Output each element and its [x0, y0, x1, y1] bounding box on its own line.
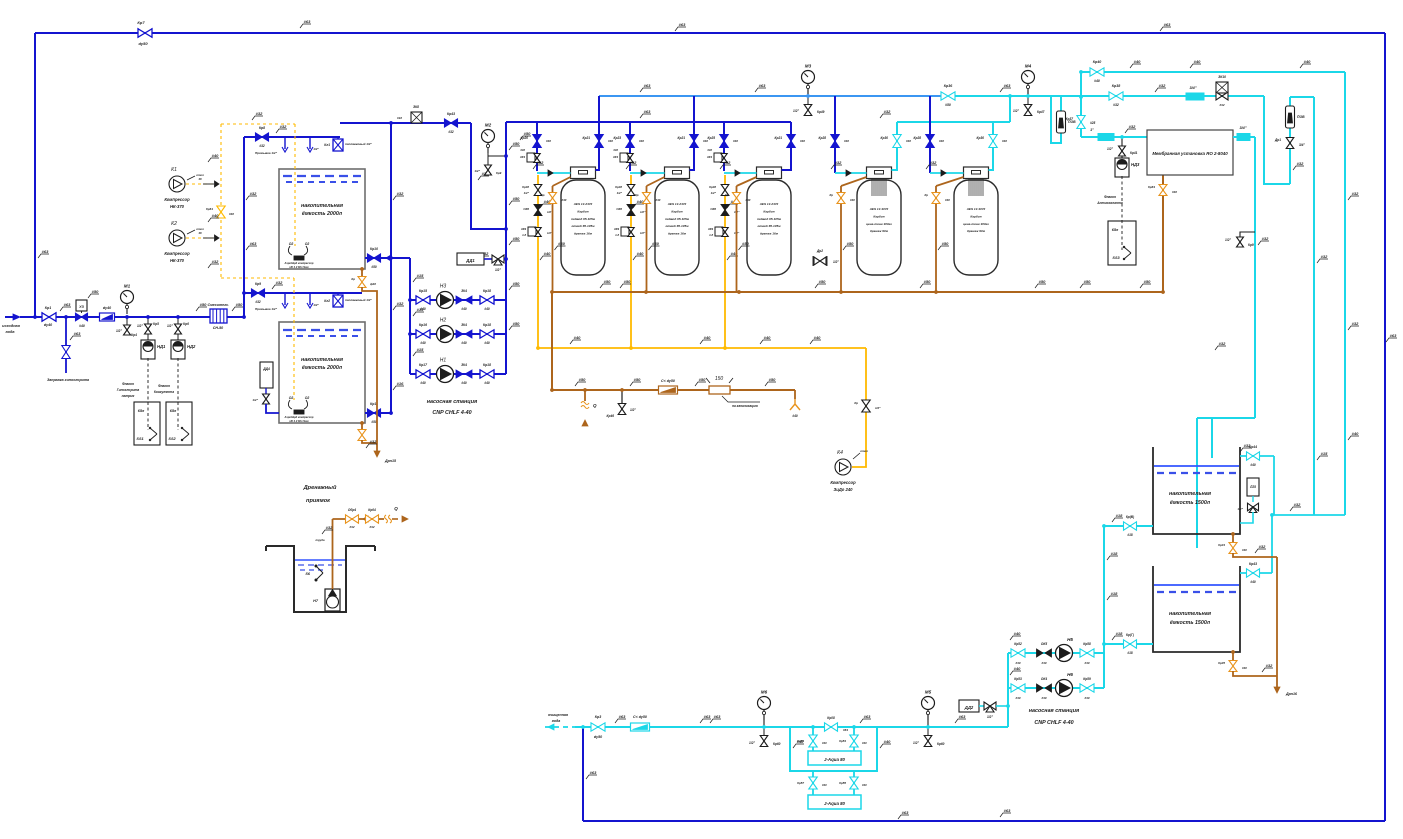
- svg-text:откл: откл: [860, 449, 868, 453]
- svg-text:Кр28: Кр28: [914, 136, 922, 140]
- svg-text:Коагулянта: Коагулянта: [154, 390, 174, 394]
- svg-text:Промывка 1/2": Промывка 1/2": [255, 151, 278, 155]
- svg-text:#32: #32: [397, 301, 404, 306]
- svg-text:1/2": 1/2": [987, 715, 993, 719]
- svg-text:ОК6: ОК6: [616, 207, 622, 211]
- svg-text:#50: #50: [558, 241, 565, 246]
- svg-text:Кр(В): Кр(В): [1126, 515, 1134, 519]
- svg-text:#32: #32: [369, 525, 374, 529]
- svg-text:Кр3: Кр3: [595, 715, 601, 719]
- svg-text:Кр25: Кр25: [708, 136, 716, 140]
- svg-text:#40: #40: [546, 139, 551, 143]
- svg-text:Кр63: Кр63: [1148, 185, 1155, 189]
- svg-text:Кр30: Кр30: [881, 136, 889, 140]
- svg-text:М6: М6: [761, 690, 768, 695]
- svg-text:Кр30: Кр30: [977, 136, 985, 140]
- svg-text:О2: О2: [289, 242, 294, 246]
- svg-text:#18: #18: [1127, 533, 1133, 537]
- svg-text:#63: #63: [644, 83, 651, 88]
- svg-text:М5: М5: [925, 690, 932, 695]
- svg-text:3/4": 3/4": [1239, 126, 1246, 130]
- svg-text:ДД4: ДД4: [262, 367, 270, 371]
- svg-text:dy50: dy50: [138, 41, 148, 46]
- svg-text:дренаж 16м: дренаж 16м: [760, 232, 779, 236]
- svg-text:#40: #40: [461, 307, 467, 311]
- svg-text:#50: #50: [513, 236, 520, 241]
- svg-text:#50: #50: [513, 321, 520, 326]
- svg-text:#15: #15: [417, 273, 424, 278]
- svg-text:SS1: SS1: [136, 437, 143, 441]
- svg-text:#40: #40: [574, 335, 581, 340]
- svg-text:накопительная: накопительная: [301, 203, 344, 209]
- svg-text:#32: #32: [1262, 236, 1269, 241]
- svg-text:#50: #50: [1144, 279, 1151, 284]
- svg-text:#32: #32: [930, 160, 937, 165]
- svg-text:Карбон: Карбон: [763, 209, 774, 213]
- svg-text:1/2": 1/2": [875, 406, 881, 410]
- svg-text:1/2": 1/2": [167, 324, 173, 328]
- svg-text:#40: #40: [797, 739, 804, 744]
- svg-text:Кр21: Кр21: [775, 136, 783, 140]
- svg-text:#63: #63: [679, 22, 686, 27]
- svg-text:#50: #50: [524, 131, 531, 136]
- svg-text:УЗ: УЗ: [79, 305, 84, 309]
- svg-text:#32: #32: [835, 160, 842, 165]
- svg-text:ОК6: ОК6: [710, 207, 716, 211]
- svg-text:AES 13-2472: AES 13-2472: [573, 202, 593, 206]
- svg-text:Кр23: Кр23: [614, 136, 622, 140]
- svg-text:цена-тонн 300кг: цена-тонн 300кг: [963, 222, 989, 226]
- svg-text:Кр43: Кр43: [1249, 562, 1257, 566]
- svg-text:очищенная: очищенная: [548, 713, 569, 717]
- svg-text:#50: #50: [236, 302, 243, 307]
- svg-text:Смеситель: Смеситель: [207, 303, 228, 307]
- svg-text:1": 1": [1090, 128, 1094, 132]
- svg-text:Кр4: Кр4: [131, 333, 137, 337]
- svg-text:1/2": 1/2": [252, 398, 258, 402]
- svg-text:Кр1: Кр1: [45, 306, 51, 310]
- svg-text:подвод 65-105м: подвод 65-105м: [571, 217, 596, 221]
- svg-text:#50: #50: [1039, 279, 1046, 284]
- svg-text:#63: #63: [74, 331, 81, 336]
- svg-text:1/2": 1/2": [474, 169, 480, 173]
- svg-text:вода: вода: [552, 719, 561, 723]
- svg-text:dy50: dy50: [594, 735, 602, 739]
- svg-text:J-Aqua 80: J-Aqua 80: [824, 801, 846, 806]
- svg-text:#40: #40: [420, 381, 426, 385]
- svg-text:Кр: Кр: [541, 193, 545, 197]
- svg-text:М3: М3: [805, 64, 812, 69]
- svg-text:Кр9: Кр9: [255, 282, 261, 286]
- svg-text:Кр46: Кр46: [607, 414, 615, 418]
- svg-text:Карбон: Карбон: [873, 214, 884, 218]
- svg-text:1/2": 1/2": [313, 147, 319, 151]
- svg-text:#40: #40: [520, 148, 525, 152]
- svg-text:дренаж 90м: дренаж 90м: [870, 229, 889, 233]
- svg-text:#50: #50: [513, 196, 520, 201]
- svg-text:3/4": 3/4": [1189, 86, 1196, 90]
- svg-text:вода: вода: [6, 330, 15, 334]
- svg-text:1/2": 1/2": [833, 260, 839, 264]
- svg-text:ф40: ф40: [370, 282, 376, 286]
- svg-text:М1: М1: [124, 284, 131, 289]
- svg-text:#63: #63: [304, 19, 311, 24]
- svg-text:ёмкость 1500л: ёмкость 1500л: [1170, 500, 1211, 506]
- svg-text:1/2": 1/2": [495, 268, 501, 272]
- svg-text:#40: #40: [1015, 661, 1020, 665]
- svg-text:Флакон: Флакон: [122, 382, 134, 386]
- svg-text:#32: #32: [212, 259, 219, 264]
- svg-text:Кр52: Кр52: [1014, 642, 1022, 646]
- svg-text:#40: #40: [1084, 696, 1089, 700]
- svg-text:ОК6: ОК6: [523, 207, 529, 211]
- svg-text:#40: #40: [1084, 661, 1089, 665]
- svg-text:#40: #40: [1242, 548, 1247, 552]
- svg-text:1/2": 1/2": [617, 191, 623, 195]
- svg-text:#32: #32: [1352, 321, 1359, 326]
- svg-text:#32: #32: [1244, 443, 1251, 448]
- svg-text:1/2": 1/2": [793, 109, 799, 113]
- svg-text:Н3: Н3: [440, 284, 447, 290]
- svg-text:#50: #50: [847, 241, 854, 246]
- svg-text:#32: #32: [370, 439, 377, 444]
- svg-text:SS2: SS2: [168, 437, 176, 441]
- svg-text:#40: #40: [822, 741, 827, 745]
- svg-text:НК 4.0 80л 5мм: НК 4.0 80л 5мм: [289, 419, 308, 423]
- svg-text:#32: #32: [250, 191, 257, 196]
- svg-text:#32: #32: [349, 525, 354, 529]
- svg-text:#50: #50: [699, 377, 706, 382]
- svg-text:Q: Q: [593, 403, 597, 408]
- svg-text:отвод 65-105м: отвод 65-105м: [757, 224, 781, 228]
- svg-text:Кр48: Кр48: [709, 185, 716, 189]
- svg-text:НК-370: НК-370: [170, 258, 185, 263]
- svg-text:#32: #32: [1219, 341, 1226, 346]
- svg-text:#50: #50: [942, 241, 949, 246]
- svg-text:65л: 65л: [1112, 228, 1119, 232]
- svg-text:#32: #32: [537, 160, 544, 165]
- svg-text:Кр47: Кр47: [1037, 110, 1045, 114]
- svg-text:поплавковый 1/2": поплавковый 1/2": [345, 142, 372, 146]
- svg-text:накопительная: накопительная: [1169, 491, 1212, 497]
- svg-text:Антискаланта: Антискаланта: [1096, 201, 1123, 205]
- svg-text:1/2": 1/2": [1013, 109, 1019, 113]
- svg-text:#40: #40: [746, 198, 751, 202]
- svg-text:#18: #18: [1116, 631, 1123, 636]
- svg-text:ёмкость 2000л: ёмкость 2000л: [302, 365, 343, 371]
- svg-text:Кр18: Кр18: [483, 323, 491, 327]
- svg-text:#50: #50: [1084, 279, 1091, 284]
- svg-text:НД3: НД3: [1131, 162, 1140, 167]
- svg-text:dy40: dy40: [44, 323, 52, 327]
- svg-text:#40: #40: [1094, 79, 1100, 83]
- svg-text:#40: #40: [703, 139, 708, 143]
- svg-text:SS3: SS3: [1112, 256, 1120, 260]
- svg-text:насосная станция: насосная станция: [427, 399, 478, 405]
- svg-text:подвод 65-105м: подвод 65-105м: [665, 217, 690, 221]
- svg-text:Компрессор: Компрессор: [164, 197, 190, 202]
- svg-text:Кр61: Кр61: [206, 207, 213, 211]
- svg-text:#32: #32: [280, 124, 287, 129]
- svg-text:цена-тонн 300кг: цена-тонн 300кг: [866, 222, 892, 226]
- svg-text:#15: #15: [417, 347, 424, 352]
- svg-text:Л25: Л25: [1249, 485, 1256, 489]
- svg-text:К1: К1: [171, 167, 177, 173]
- svg-text:Q: Q: [394, 506, 398, 511]
- svg-text:Кр: Кр: [854, 401, 858, 405]
- svg-text:#40: #40: [1041, 696, 1046, 700]
- svg-text:#50: #50: [652, 241, 659, 246]
- svg-text:1/2": 1/2": [913, 741, 919, 745]
- svg-text:1/2": 1/2": [630, 408, 636, 412]
- svg-text:#40: #40: [1194, 59, 1201, 64]
- svg-text:Гипохлорита: Гипохлорита: [117, 388, 140, 392]
- svg-text:ОК5: ОК5: [1041, 642, 1047, 646]
- svg-text:Кр21: Кр21: [583, 136, 591, 140]
- svg-text:CNP CHLF 4-40: CNP CHLF 4-40: [432, 410, 471, 416]
- svg-text:ДД1: ДД1: [465, 258, 475, 263]
- svg-text:Кр55: Кр55: [839, 781, 846, 785]
- svg-text:ПОВ: ПОВ: [1297, 115, 1305, 119]
- svg-text:#40: #40: [862, 783, 867, 787]
- svg-text:#50: #50: [513, 281, 520, 286]
- svg-text:Кр40: Кр40: [1093, 60, 1101, 64]
- svg-text:#50: #50: [924, 279, 931, 284]
- svg-text:#40: #40: [906, 139, 911, 143]
- svg-text:1/2": 1/2": [640, 231, 646, 235]
- svg-text:#32: #32: [724, 160, 731, 165]
- svg-text:на канализацию: на канализацию: [732, 404, 758, 408]
- svg-text:подвод 65-105м: подвод 65-105м: [757, 217, 782, 221]
- svg-text:Флакон: Флакон: [1104, 195, 1116, 199]
- svg-text:ЗК10: ЗК10: [1218, 75, 1226, 79]
- svg-text:НД2: НД2: [187, 344, 196, 349]
- svg-text:Н1: Н1: [440, 358, 447, 364]
- svg-text:Кр5: Кр5: [153, 322, 159, 326]
- svg-text:#40: #40: [707, 148, 712, 152]
- svg-text:Заправка гипохлорита: Заправка гипохлорита: [47, 378, 89, 382]
- svg-text:исходная: исходная: [2, 324, 20, 328]
- svg-text:#40: #40: [608, 139, 613, 143]
- svg-text:#40: #40: [613, 148, 618, 152]
- svg-text:Н6: Н6: [1067, 672, 1073, 677]
- svg-text:ёмкость 2000л: ёмкость 2000л: [302, 211, 343, 217]
- svg-text:Обр4: Обр4: [348, 508, 356, 512]
- svg-text:#32: #32: [1113, 103, 1119, 107]
- svg-text:J-Aqua 80: J-Aqua 80: [824, 757, 846, 762]
- svg-text:Аэробёрд компрессор: Аэробёрд компрессор: [284, 261, 314, 265]
- svg-text:Кр16: Кр16: [419, 323, 427, 327]
- svg-text:#40: #40: [945, 198, 950, 202]
- svg-text:#40: #40: [484, 307, 490, 311]
- svg-text:поплавковый 1/2": поплавковый 1/2": [345, 298, 372, 302]
- svg-text:#50: #50: [513, 141, 520, 146]
- svg-text:Кр7: Кр7: [137, 20, 145, 25]
- svg-text:#40: #40: [1014, 631, 1021, 636]
- svg-text:Кр18: Кр18: [483, 289, 491, 293]
- svg-text:#63: #63: [64, 302, 71, 307]
- svg-text:Карбон: Карбон: [970, 214, 981, 218]
- svg-text:#50: #50: [945, 103, 951, 107]
- svg-text:#50: #50: [604, 279, 611, 284]
- svg-text:#50: #50: [624, 279, 631, 284]
- svg-text:AES 13-3072: AES 13-3072: [869, 207, 889, 211]
- svg-text:бр: бр: [351, 277, 355, 281]
- svg-text:#15: #15: [417, 307, 424, 312]
- svg-text:Кл2: Кл2: [324, 299, 330, 303]
- svg-text:Дрн15: Дрн15: [384, 459, 397, 463]
- svg-text:#40: #40: [822, 783, 827, 787]
- svg-text:Компрессор: Компрессор: [830, 480, 856, 485]
- svg-text:#40: #40: [562, 198, 567, 202]
- svg-text:#40: #40: [420, 341, 426, 345]
- svg-text:#40: #40: [862, 741, 867, 745]
- svg-text:1/2": 1/2": [137, 324, 143, 328]
- svg-text:#40: #40: [637, 251, 644, 256]
- svg-text:#63: #63: [1390, 333, 1397, 338]
- svg-text:#63: #63: [42, 249, 49, 254]
- svg-text:#50: #50: [371, 265, 377, 269]
- svg-text:ЗК9: ЗК9: [614, 227, 620, 231]
- svg-text:ОК4: ОК4: [1041, 677, 1047, 681]
- svg-text:1/2": 1/2": [711, 191, 717, 195]
- svg-text:#18: #18: [1116, 513, 1123, 518]
- svg-text:труба: труба: [316, 538, 325, 542]
- svg-text:#40: #40: [544, 251, 551, 256]
- svg-text:Кр64: Кр64: [368, 508, 376, 512]
- svg-text:ЗиДо 240: ЗиДо 240: [834, 487, 854, 492]
- svg-text:CNP CHLF 4-40: CNP CHLF 4-40: [1034, 720, 1073, 726]
- svg-text:#25: #25: [1090, 121, 1096, 125]
- svg-text:#32: #32: [1259, 544, 1266, 549]
- svg-text:1/2": 1/2": [640, 210, 646, 214]
- svg-text:C< dy50: C< dy50: [661, 379, 675, 383]
- svg-text:#40: #40: [639, 139, 644, 143]
- svg-text:#32: #32: [1266, 663, 1273, 668]
- svg-text:Кр(Г): Кр(Г): [1126, 633, 1134, 637]
- svg-text:#18: #18: [1111, 591, 1118, 596]
- svg-text:Карбон: Карбон: [577, 209, 588, 213]
- svg-text:65л: 65л: [170, 409, 177, 413]
- svg-text:СН-50: СН-50: [213, 326, 223, 330]
- svg-text:#63: #63: [590, 770, 597, 775]
- svg-text:1/2": 1/2": [313, 303, 319, 307]
- svg-text:К2: К2: [171, 221, 177, 227]
- svg-text:дренаж 90м: дренаж 90м: [967, 229, 986, 233]
- svg-text:Кр41: Кр41: [1130, 151, 1138, 155]
- svg-text:Промывка 1/2": Промывка 1/2": [255, 307, 278, 311]
- svg-text:150: 150: [715, 376, 724, 382]
- svg-text:ЗК3: ЗК3: [707, 155, 713, 159]
- svg-text:#40: #40: [814, 335, 821, 340]
- svg-text:Др1: Др1: [1274, 138, 1281, 142]
- svg-text:#32: #32: [1321, 254, 1328, 259]
- svg-text:Кр: Кр: [635, 193, 639, 197]
- svg-text:#40: #40: [656, 198, 661, 202]
- svg-text:#32: #32: [256, 111, 263, 116]
- svg-text:ЗК3: ЗК3: [613, 155, 619, 159]
- svg-text:ЗК8: ЗК8: [413, 105, 419, 109]
- svg-text:М2: М2: [485, 123, 492, 128]
- svg-text:#32: #32: [276, 280, 283, 285]
- svg-text:#63: #63: [704, 714, 711, 719]
- svg-text:приямок: приямок: [306, 498, 331, 504]
- svg-text:#16: #16: [397, 381, 404, 386]
- svg-text:#40: #40: [764, 335, 771, 340]
- svg-text:3/4": 3/4": [1299, 143, 1305, 147]
- svg-text:1/2": 1/2": [524, 191, 530, 195]
- svg-text:#63: #63: [1004, 808, 1011, 813]
- svg-text:ЗК9: ЗК9: [708, 227, 714, 231]
- svg-text:#32: #32: [1294, 502, 1301, 507]
- svg-text:#63: #63: [714, 714, 721, 719]
- svg-text:#50: #50: [579, 377, 586, 382]
- svg-text:1/2": 1/2": [1225, 238, 1231, 242]
- svg-text:Кр45: Кр45: [1218, 661, 1225, 665]
- svg-text:#40: #40: [212, 213, 219, 218]
- svg-text:НД1: НД1: [157, 344, 166, 349]
- svg-text:#40: #40: [1015, 696, 1020, 700]
- svg-text:#18: #18: [1127, 651, 1133, 655]
- svg-text:#40: #40: [1242, 666, 1247, 670]
- svg-text:ЗК4: ЗК4: [461, 323, 467, 327]
- svg-text:Кр53: Кр53: [1014, 677, 1022, 681]
- svg-text:#40: #40: [1304, 59, 1311, 64]
- svg-text:Н2: Н2: [440, 318, 447, 324]
- svg-text:Кр54: Кр54: [839, 739, 846, 743]
- svg-text:#40: #40: [461, 381, 467, 385]
- svg-text:C< dy50: C< dy50: [633, 715, 647, 719]
- svg-text:#32: #32: [884, 109, 891, 114]
- svg-text:#40: #40: [733, 139, 738, 143]
- svg-text:#40: #40: [1250, 580, 1256, 584]
- svg-text:#32: #32: [630, 160, 637, 165]
- svg-text:#63: #63: [759, 83, 766, 88]
- svg-text:Кр60: Кр60: [937, 742, 945, 746]
- svg-text:#50: #50: [819, 279, 826, 284]
- svg-text:48: 48: [197, 231, 202, 235]
- svg-text:#32: #32: [259, 144, 265, 148]
- svg-text:Кр48: Кр48: [522, 185, 529, 189]
- svg-text:#32: #32: [1352, 191, 1359, 196]
- svg-text:М4: М4: [1025, 64, 1032, 69]
- svg-text:#40: #40: [1041, 661, 1046, 665]
- svg-text:ёмкость 1500л: ёмкость 1500л: [1170, 620, 1211, 626]
- svg-text:Кр37: Кр37: [1066, 117, 1074, 121]
- svg-text:НК 4.0 80л 5мм: НК 4.0 80л 5мм: [289, 265, 308, 269]
- svg-text:#32: #32: [1297, 161, 1304, 166]
- svg-text:#40: #40: [461, 341, 467, 345]
- svg-text:AES 13-3072: AES 13-3072: [966, 207, 986, 211]
- svg-text:отвод 65-105м: отвод 65-105м: [571, 224, 595, 228]
- svg-text:Н5: Н5: [1067, 637, 1073, 642]
- svg-text:Кр43: Кр43: [447, 112, 455, 116]
- svg-text:#50: #50: [200, 302, 207, 307]
- svg-text:#40: #40: [79, 324, 85, 328]
- svg-text:насосная станция: насосная станция: [1029, 708, 1080, 714]
- svg-text:О2: О2: [305, 242, 310, 246]
- svg-text:К4: К4: [837, 450, 843, 456]
- svg-text:Кр9: Кр9: [496, 171, 502, 175]
- svg-text:#32: #32: [448, 130, 454, 134]
- svg-text:#32: #32: [1219, 103, 1224, 107]
- svg-text:отвод 65-105м: отвод 65-105м: [665, 224, 689, 228]
- svg-text:#32: #32: [326, 525, 333, 530]
- svg-text:Кр36: Кр36: [944, 84, 953, 88]
- svg-text:ЗК3: ЗК3: [520, 155, 526, 159]
- svg-text:1/2": 1/2": [1107, 147, 1113, 151]
- svg-text:Кр10: Кр10: [370, 247, 378, 251]
